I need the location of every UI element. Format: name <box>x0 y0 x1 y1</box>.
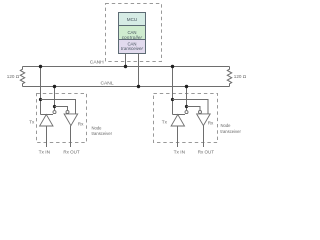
wire branch to left Rx noninverting input <box>41 100 76 114</box>
wire right Rx output <box>203 126 205 147</box>
wire CANH bus line <box>23 66 230 68</box>
junction left on CANL <box>53 85 56 88</box>
resistor left 120 ohm termination <box>20 67 24 87</box>
bubble left Tx inverted output <box>53 111 56 114</box>
wire left CANH tap <box>40 67 42 115</box>
svg-text:Node: Node <box>92 125 103 130</box>
wire right CANL tap <box>186 87 188 111</box>
dashed box left node transceiver <box>37 94 87 143</box>
CAN transceiver block <box>119 40 146 54</box>
svg-text:Rx: Rx <box>78 122 84 127</box>
junction left on CANH <box>39 65 42 68</box>
svg-text:transceiver: transceiver <box>220 129 241 134</box>
junction left branch to Rx bubble <box>53 105 56 108</box>
svg-text:Tx IN: Tx IN <box>39 149 51 155</box>
wire top node to CANL <box>138 54 140 87</box>
wire right Tx input <box>177 126 179 147</box>
junction right branch to Rx <box>171 98 174 101</box>
svg-text:Rx: Rx <box>208 121 214 126</box>
wire left Rx output <box>70 126 72 147</box>
dashed box right node transceiver <box>154 94 218 143</box>
svg-text:Rx OUT: Rx OUT <box>198 149 215 154</box>
wire left Tx input <box>46 126 48 147</box>
buffer left Rx receiver <box>64 114 78 126</box>
wire right CANH tap <box>172 67 174 115</box>
svg-text:transceiver: transceiver <box>121 46 144 51</box>
junction right on CANL <box>185 85 188 88</box>
svg-text:Rx OUT: Rx OUT <box>63 149 80 154</box>
wire branch to right Rx noninverting input <box>173 100 209 114</box>
wire right Tx output rail <box>173 114 186 116</box>
svg-text:CANH: CANH <box>90 59 104 65</box>
dashed box top node (MCU module) <box>106 4 162 62</box>
svg-text:120 Ω: 120 Ω <box>234 74 247 79</box>
svg-text:Tx: Tx <box>162 120 168 125</box>
svg-text:MCU: MCU <box>127 17 137 22</box>
junction right branch to Rx bubble <box>185 105 188 108</box>
junction left branch to Rx <box>39 98 42 101</box>
wire branch to left Rx inverting bubble <box>55 107 68 111</box>
wire CANL bus line <box>23 86 230 88</box>
svg-text:120 Ω: 120 Ω <box>7 74 20 79</box>
buffer right Tx driver <box>171 115 184 127</box>
svg-text:CANL: CANL <box>101 81 114 87</box>
svg-text:Tx: Tx <box>29 119 35 124</box>
junction right on CANH <box>171 65 174 68</box>
buffer right Rx receiver <box>197 114 211 126</box>
resistor right 120 ohm termination <box>227 67 231 87</box>
MCU block <box>119 13 146 26</box>
wire branch to right Rx inverting bubble <box>187 107 201 111</box>
bubble right Rx inverting input <box>199 111 202 114</box>
wire left CANL tap <box>54 87 56 111</box>
svg-text:Tx IN: Tx IN <box>174 149 186 155</box>
buffer left Tx driver <box>40 115 53 127</box>
bubble right Tx inverted output <box>185 111 188 114</box>
bubble left Rx inverting input <box>66 111 69 114</box>
junction top node on CANL <box>137 85 140 88</box>
wire top node to CANH <box>125 54 127 67</box>
svg-text:transceiver: transceiver <box>92 131 113 136</box>
wire left Tx output rail <box>41 114 54 116</box>
CAN controller block <box>119 26 146 40</box>
junction top node on CANH <box>124 65 127 68</box>
svg-text:Node: Node <box>221 123 232 128</box>
